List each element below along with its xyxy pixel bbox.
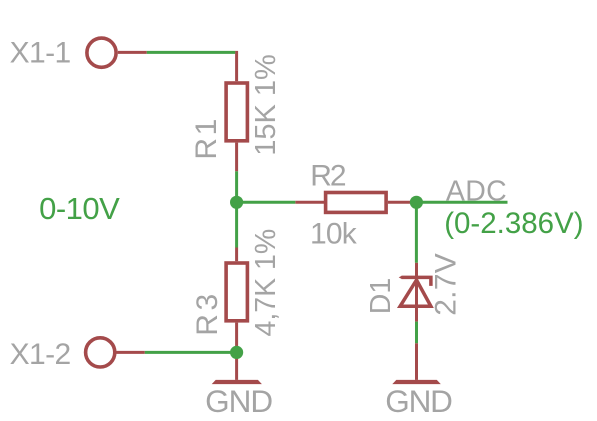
svg-text:2.7V: 2.7V — [429, 253, 462, 316]
svg-text:R1: R1 — [190, 116, 223, 160]
svg-text:15K 1%: 15K 1% — [250, 54, 282, 156]
svg-text:D1: D1 — [365, 278, 397, 314]
svg-text:0-10V: 0-10V — [39, 191, 120, 226]
svg-text:X1-1: X1-1 — [10, 37, 71, 70]
svg-text:4,7K 1%: 4,7K 1% — [250, 229, 282, 337]
svg-text:GND: GND — [205, 383, 272, 419]
svg-text:R3: R3 — [191, 290, 224, 336]
svg-text:GND: GND — [385, 383, 452, 419]
svg-text:X1-2: X1-2 — [10, 338, 71, 371]
svg-text:R2: R2 — [310, 160, 346, 193]
svg-text:10k: 10k — [310, 218, 358, 251]
svg-text:ADC: ADC — [446, 175, 507, 207]
svg-text:(0-2.386V): (0-2.386V) — [444, 207, 583, 240]
